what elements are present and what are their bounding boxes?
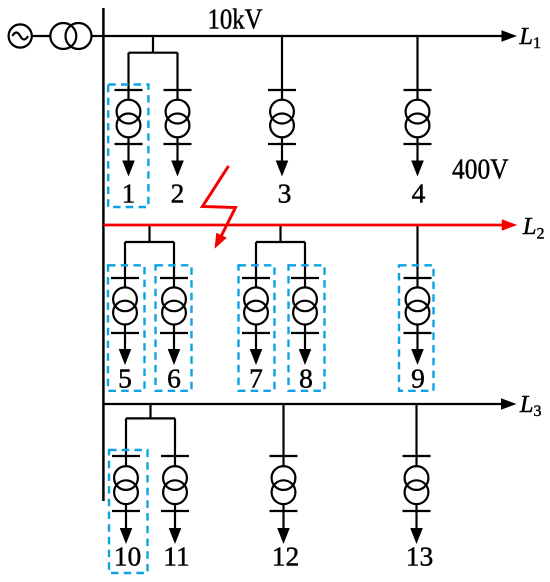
- svg-text:9: 9: [411, 362, 425, 393]
- svg-text:2: 2: [171, 177, 185, 208]
- svg-text:400V: 400V: [452, 153, 509, 185]
- svg-text:13: 13: [406, 540, 434, 571]
- svg-text:10: 10: [114, 540, 142, 571]
- svg-text:8: 8: [299, 362, 313, 393]
- svg-text:3: 3: [278, 177, 292, 208]
- svg-text:11: 11: [163, 540, 189, 571]
- svg-text:6: 6: [167, 362, 181, 393]
- svg-text:7: 7: [249, 362, 263, 393]
- svg-text:10kV: 10kV: [208, 4, 263, 35]
- svg-text:4: 4: [412, 177, 426, 208]
- svg-text:12: 12: [272, 540, 300, 571]
- svg-text:1: 1: [122, 177, 136, 208]
- svg-text:5: 5: [118, 362, 132, 393]
